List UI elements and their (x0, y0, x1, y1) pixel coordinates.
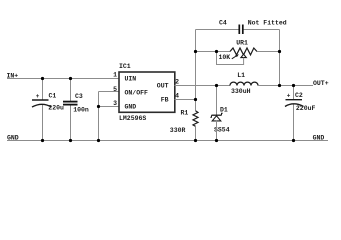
capacitor C2 (285, 100, 304, 107)
wire: C3 top lead (70, 79, 72, 102)
wire: C2 bottom lead (293, 104, 295, 141)
wire: top IN+ rail (7, 78, 119, 80)
svg-text:4: 4 (175, 92, 179, 99)
wire: ON/OFF pin5 stub (99, 91, 120, 93)
svg-text:D1: D1 (220, 106, 228, 113)
potentiometer VR1 (230, 48, 257, 55)
wire: OUT pin2 to L1 (175, 85, 231, 87)
VR1 wiper contact triangle (241, 54, 246, 57)
svg-text:10K: 10K (219, 54, 231, 61)
svg-text:Not Fitted: Not Fitted (248, 19, 287, 26)
wire: C4 loop top (196, 29, 280, 31)
svg-text:IN+: IN+ (7, 72, 19, 79)
wire: L1 to OUT+ (258, 85, 313, 87)
svg-text:3: 3 (113, 100, 117, 107)
wire: C3 bottom lead (70, 105, 72, 141)
diode D1 SS54 (210, 113, 222, 121)
wire: VR1 row right (257, 51, 280, 53)
svg-text:C3: C3 (75, 93, 83, 100)
inductor L1 (230, 82, 258, 85)
svg-text:+: + (36, 93, 40, 100)
wire: pin5-pin3 tie vertical (98, 92, 100, 107)
capacitor C3 (63, 102, 78, 105)
wire: bottom GND rail (7, 140, 328, 142)
VR1 wiper arrow (232, 56, 237, 59)
svg-text:OUT: OUT (157, 82, 169, 89)
svg-text:2: 2 (175, 78, 179, 85)
wire: loop right vertical (279, 30, 281, 86)
wire: C2 top lead (293, 86, 295, 100)
svg-text:FB: FB (161, 96, 169, 103)
wire: C1 bottom lead (42, 104, 44, 140)
svg-text:OUT+: OUT+ (313, 80, 329, 87)
capacitor C1 (32, 100, 52, 107)
svg-text:L1: L1 (237, 72, 245, 79)
wire: FB vertical (loop left side down to R1) (195, 30, 197, 111)
svg-text:1: 1 (113, 72, 117, 79)
svg-text:ON/OFF: ON/OFF (125, 89, 149, 96)
svg-text:UR1: UR1 (236, 40, 248, 47)
wire: VR1 row left (196, 51, 231, 53)
svg-text:C4: C4 (219, 19, 227, 26)
svg-text:IC1: IC1 (119, 63, 131, 70)
svg-text:100n: 100n (73, 106, 89, 113)
wire: GND pin3 stub (99, 106, 120, 108)
svg-text:+: + (287, 93, 291, 100)
svg-text:220u: 220u (48, 105, 64, 112)
resistor R1 (193, 111, 198, 127)
svg-text:GND: GND (7, 134, 19, 141)
svg-text:C1: C1 (49, 92, 57, 99)
svg-text:330uH: 330uH (231, 88, 251, 95)
svg-text:GND: GND (125, 103, 137, 110)
svg-text:GND: GND (313, 134, 325, 141)
svg-text:R1: R1 (181, 109, 189, 116)
svg-text:UIN: UIN (125, 75, 137, 82)
wire: D1 bottom lead (216, 121, 218, 141)
wire: C1 top lead (42, 79, 44, 100)
svg-text:C2: C2 (295, 92, 303, 99)
svg-text:330R: 330R (170, 127, 186, 134)
wire: FB pin4 stub (175, 99, 196, 101)
capacitor C4 (Not Fitted) (239, 25, 243, 35)
svg-text:5: 5 (113, 86, 117, 93)
wire: D1 top lead (216, 86, 218, 116)
wire: R1 bottom lead (195, 126, 197, 140)
svg-text:220uF: 220uF (296, 105, 316, 112)
IC IC1 LM2596S (119, 72, 175, 112)
svg-text:LM2596S: LM2596S (119, 115, 146, 122)
wire: wiper loop (217, 52, 244, 65)
wire: tie down to GND rail (98, 107, 100, 141)
